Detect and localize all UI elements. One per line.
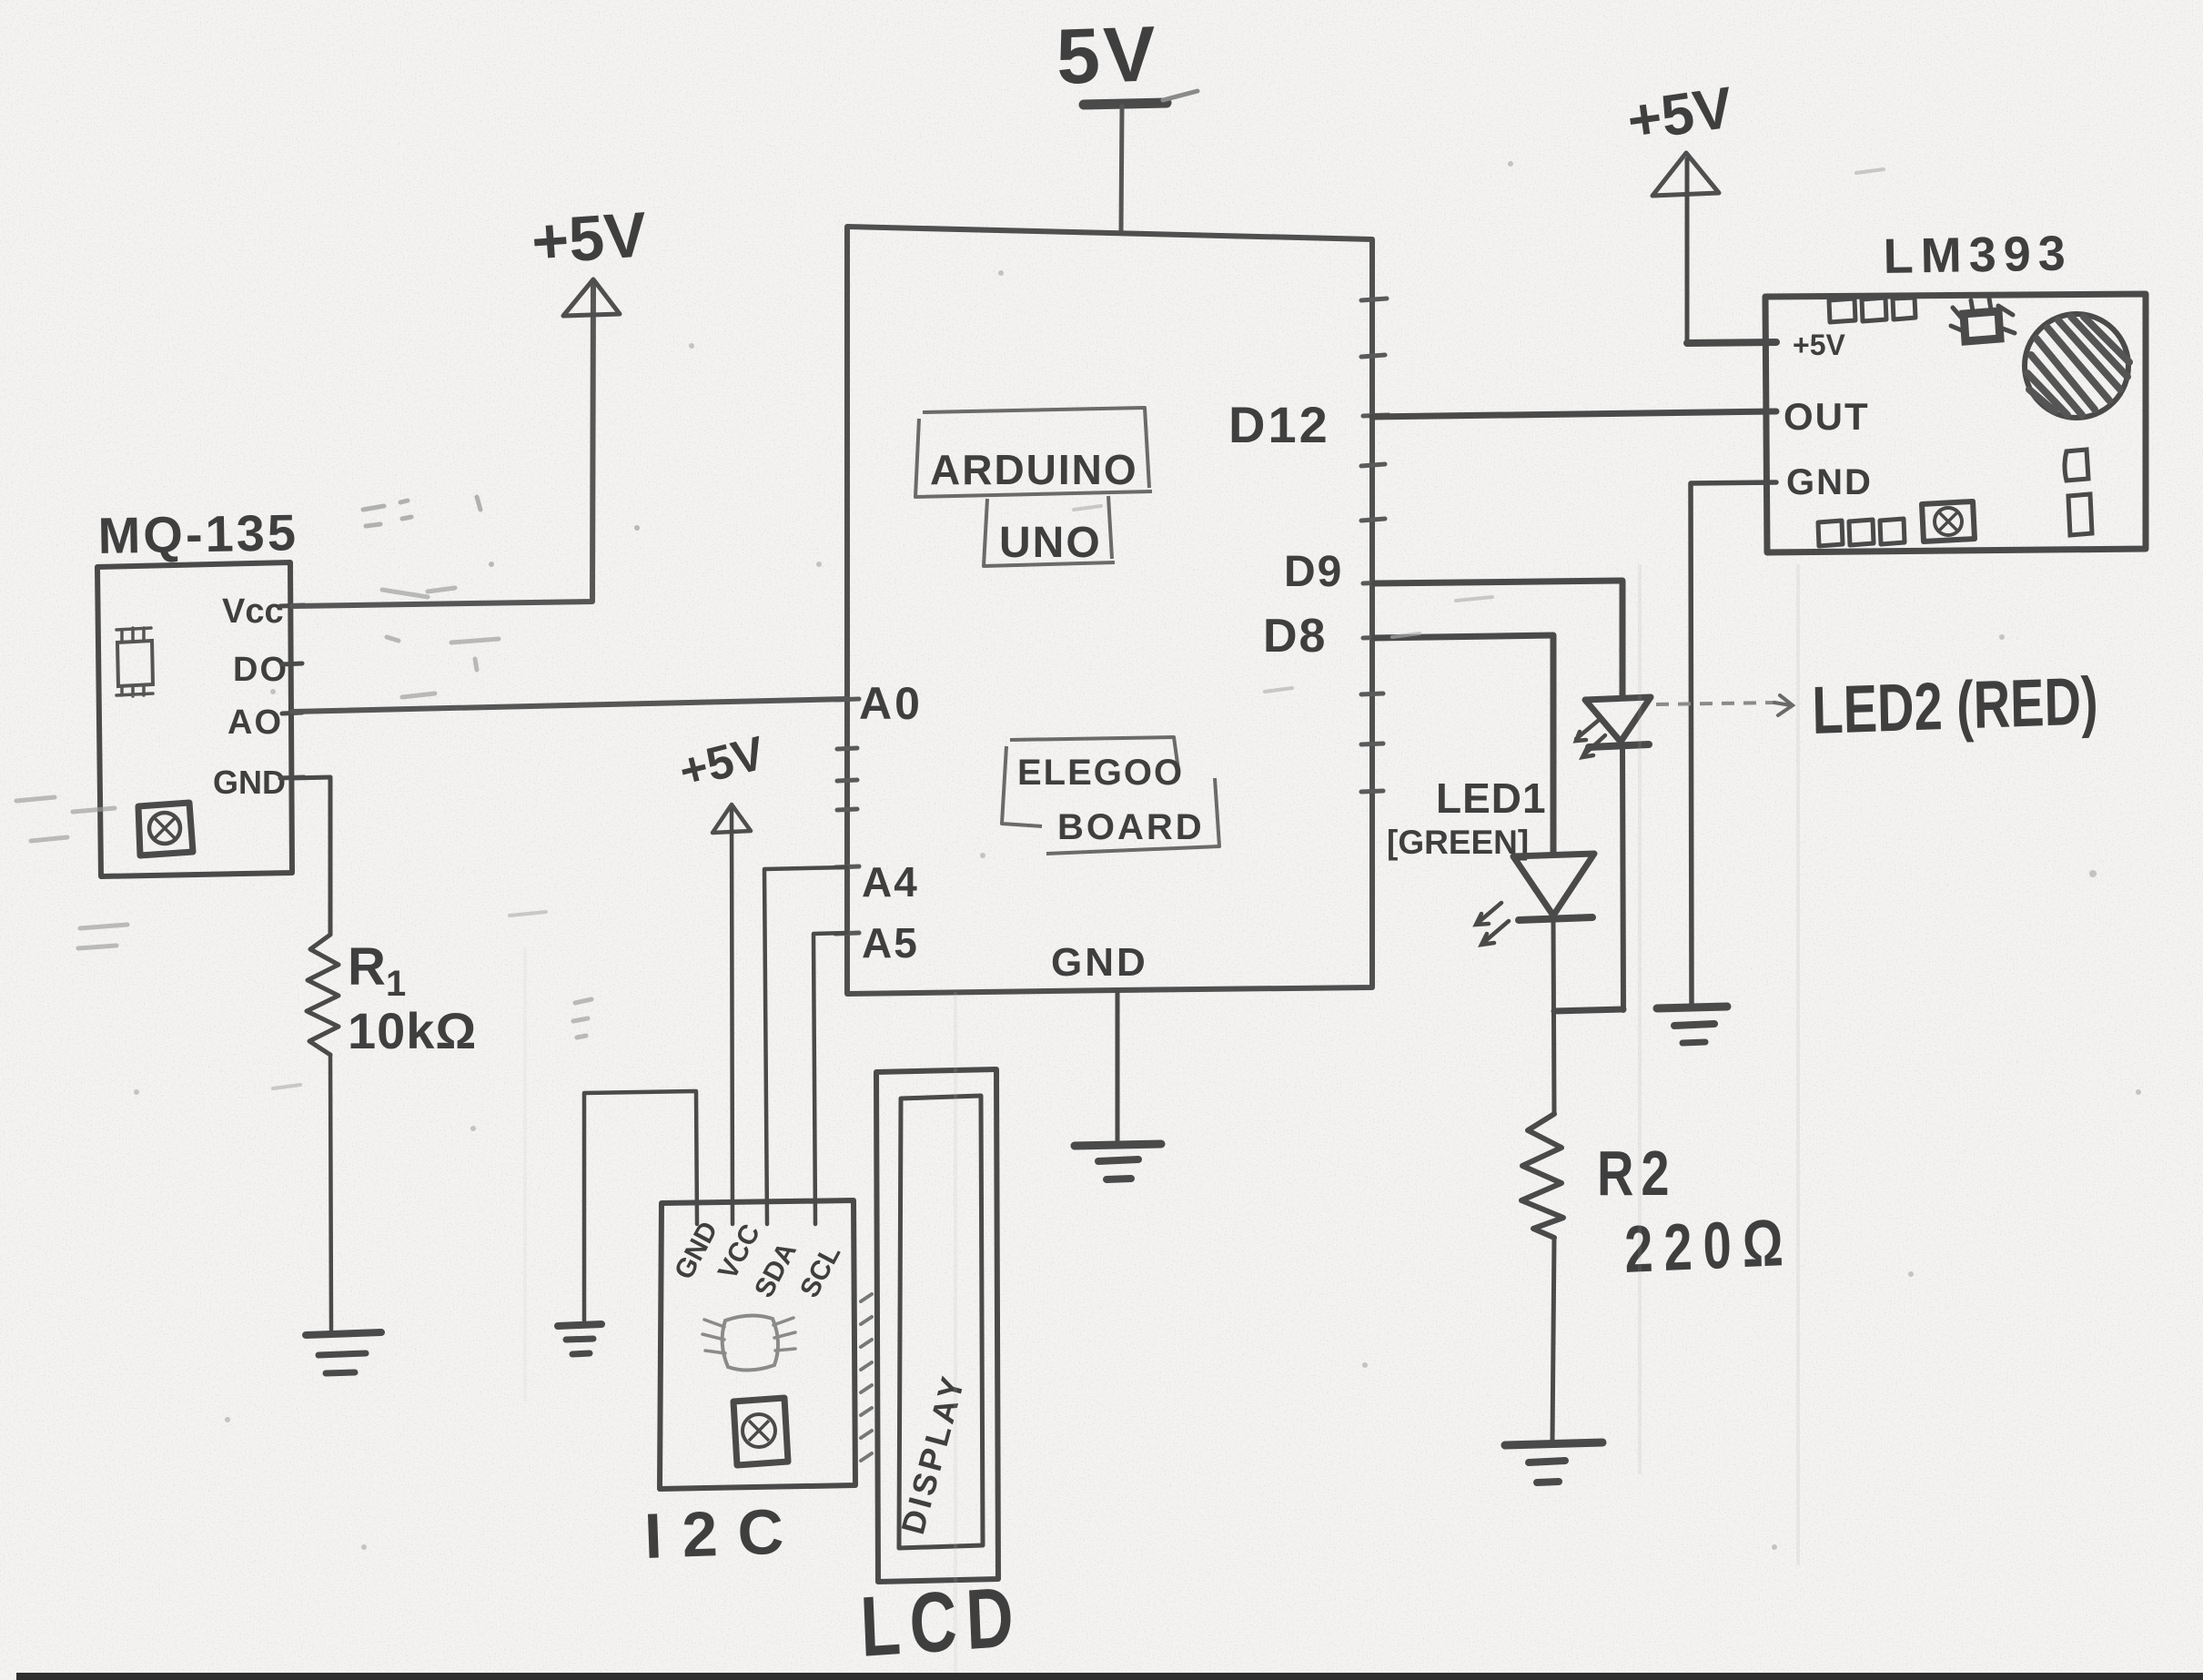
resistor R2 zigzag (1521, 1114, 1563, 1238)
label R2 (1597, 1139, 1677, 1209)
LM393 potentiometer symbol (1922, 501, 1975, 541)
label LM393 (1883, 226, 2073, 284)
wire LED1 cathode down to R2 (1553, 919, 1554, 1114)
svg-text:1: 1 (386, 964, 406, 1004)
svg-text:LCD: LCD (859, 1568, 1025, 1675)
wire R1 to ground (330, 1055, 331, 1330)
svg-text:LM393: LM393 (1883, 226, 2073, 284)
ground symbol under R1 (306, 1332, 381, 1373)
pin label A4 (862, 858, 919, 906)
LM393 pin label OUT (1784, 395, 1870, 438)
svg-text:+5V: +5V (530, 198, 650, 278)
wire D9 to LED2 (1374, 581, 1622, 697)
wire LM393 GND down to ground (1691, 482, 1776, 1007)
paper noise speckles (16, 161, 2141, 1550)
LM393 module box (1765, 294, 2146, 552)
wire 5V to Arduino top (1121, 106, 1122, 233)
I2C-LCD contact hatch marks (861, 1294, 872, 1461)
wire LED2 cathode down (1622, 746, 1623, 1010)
svg-text:AO: AO (227, 703, 283, 742)
label GND (arduino bottom pin) (1051, 940, 1148, 985)
label LED2 (RED) (1812, 663, 2099, 748)
wire MQ-135 AO to arduino A0 (292, 699, 847, 712)
dashed arrow to LED2 label (1656, 695, 1793, 715)
svg-text:R2: R2 (1597, 1139, 1677, 1209)
pin label A5 (862, 919, 919, 967)
svg-text:D8: D8 (1263, 610, 1327, 663)
svg-text:OUT: OUT (1784, 395, 1870, 438)
label 220Ω (1623, 1204, 1794, 1286)
label DISPLAY vertical (894, 1370, 972, 1538)
LM393 pin label +5V (1793, 329, 1845, 361)
ground symbol under R2 (1505, 1442, 1602, 1483)
svg-text:D12: D12 (1228, 396, 1330, 453)
label R1 (348, 937, 406, 1004)
svg-text:10kΩ: 10kΩ (348, 1002, 477, 1059)
svg-text:BOARD: BOARD (1057, 807, 1205, 847)
I2C pin label SCL (794, 1240, 846, 1302)
wire arduino A4 to I2C SDA (764, 867, 847, 1224)
MQ-135 pin label VCC (222, 592, 304, 631)
pin label A0 (859, 678, 923, 729)
svg-text:LED2 (RED): LED2 (RED) (1812, 663, 2099, 748)
I2C pin label VCC (712, 1220, 766, 1284)
LED1 diode symbol (1476, 854, 1594, 945)
power +5V arrow (left) (530, 198, 650, 316)
pin label D9 (1284, 548, 1343, 596)
I2C potentiometer symbol (733, 1398, 788, 1465)
svg-text:+5V: +5V (1793, 329, 1845, 361)
svg-text:ARDUINO: ARDUINO (930, 446, 1138, 493)
svg-text:I2C: I2C (643, 1495, 805, 1572)
MQ-135 IC symbol (116, 628, 153, 696)
power +5V arrow (right, to LM393) (1623, 74, 1737, 343)
svg-text:A0: A0 (859, 678, 923, 729)
LCD inner box (899, 1096, 983, 1548)
bottom scan edge (16, 1673, 2203, 1680)
pin label D8 (1263, 610, 1327, 663)
wire MQ-135 GND down to R1 (292, 777, 330, 935)
scanner streaks (523, 564, 1800, 1675)
I2C pin label SDA (749, 1238, 803, 1302)
svg-text:GND: GND (1786, 462, 1873, 502)
label LED1 (1436, 774, 1547, 822)
wire R2 to ground (1552, 1238, 1554, 1442)
MQ-135 potentiometer symbol (138, 803, 193, 855)
LM393 right side pads (2065, 450, 2092, 535)
wire junction LED2 line to LED1 line (1554, 1009, 1623, 1011)
MQ-135 pin label AO (227, 703, 302, 742)
svg-text:UNO: UNO (999, 519, 1102, 567)
arduino UNO board U1 box (847, 227, 1372, 994)
LCD outer box (876, 1069, 998, 1582)
I2C IC symbol (702, 1315, 795, 1370)
wire arduino GND to ground (1116, 992, 1120, 1144)
label I2C (643, 1495, 805, 1572)
I2C module box (660, 1200, 855, 1489)
pin tick marks right edge (1361, 299, 1389, 792)
wire D12 to LM393 OUT (1372, 411, 1776, 417)
LM393 header pads top (1829, 298, 1915, 322)
LM393 pin label GND (1786, 462, 1873, 502)
svg-text:5V: 5V (1055, 10, 1160, 101)
ground symbol left of I2C (558, 1324, 601, 1354)
wire arduino A5 to I2C SCL (813, 933, 847, 1224)
svg-text:Vcc: Vcc (222, 592, 284, 631)
svg-text:A4: A4 (862, 858, 919, 906)
svg-text:220Ω: 220Ω (1623, 1204, 1794, 1286)
resistor R1 zigzag (307, 935, 339, 1055)
svg-text:ELEGOO: ELEGOO (1017, 753, 1184, 793)
label 10kΩ (348, 1002, 477, 1059)
svg-text:MQ-135: MQ-135 (97, 503, 298, 564)
wire MQ-135 Vcc to +5V arrow (292, 284, 593, 606)
pin label D12 (1228, 396, 1330, 453)
svg-text:[GREEN]: [GREEN] (1387, 824, 1529, 861)
power +5V arrow (middle, to I2C VCC) (674, 727, 771, 1224)
pin tick marks left edge (835, 699, 859, 934)
svg-text:LED1: LED1 (1436, 774, 1547, 822)
label UNO bracket (984, 496, 1115, 567)
LM393 crystal component (1951, 299, 2015, 341)
I2C pin label GND (669, 1217, 723, 1284)
LM393 gas sensor scribble circle (2025, 314, 2129, 418)
MQ-135 sensor box (97, 562, 292, 876)
label ELEGOO BOARD bracket (1002, 737, 1219, 854)
svg-text:R: R (348, 937, 386, 997)
svg-text:GND: GND (213, 764, 286, 801)
svg-text:GND: GND (1051, 940, 1148, 985)
wire +5V into LM393 (1687, 342, 1776, 343)
LM393 header pads bottom (1818, 519, 1905, 546)
label ARDUINO bracket (915, 408, 1152, 497)
ground symbol under LM393 (1657, 1007, 1727, 1043)
wire D8 to LED1 (1374, 635, 1553, 854)
svg-text:D9: D9 (1284, 548, 1343, 596)
label LCD (859, 1568, 1025, 1675)
MQ-135 pin label DO (233, 651, 302, 689)
power 5V supply label (1055, 10, 1198, 105)
svg-text:A5: A5 (862, 919, 919, 967)
wire I2C GND up over to ground (584, 1091, 697, 1325)
label (GREEN) (1387, 824, 1529, 861)
ground symbol under arduino (1075, 1144, 1161, 1179)
svg-text:DO: DO (233, 651, 288, 689)
LED2 diode symbol (1576, 697, 1651, 757)
MQ-135 sensor label (97, 503, 298, 564)
MQ-135 pin label GND (213, 764, 304, 801)
